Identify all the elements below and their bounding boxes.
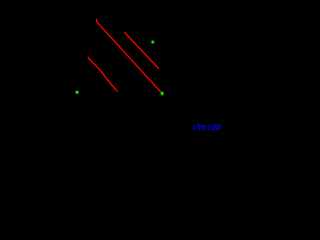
svg-text:2W: 2W [212,122,222,132]
wire line C (red stroke, lower-left diagonal) [88,57,117,91]
wire line A (red stroke, top-left long diagonal) [97,19,162,92]
label blue text bottom right [192,122,221,132]
wire line B (red stroke, middle diagonal) [125,33,159,69]
svg-text:x: x [192,123,196,132]
svg-text:fmy: fmy [197,122,206,132]
node green dot 2 (isolated, lower left) [75,90,79,94]
node green dot 3 (at end of line A) [160,91,164,95]
node green dot 1 (isolated, upper right) [151,40,155,44]
